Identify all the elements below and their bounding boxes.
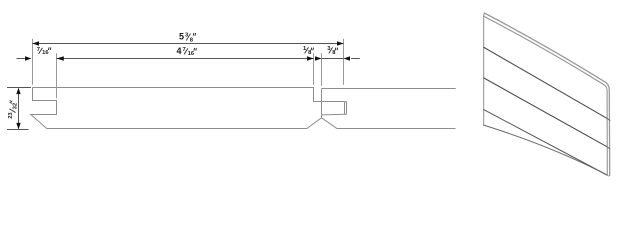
svg-text:4: 4 bbox=[177, 46, 182, 56]
svg-text:5: 5 bbox=[179, 31, 184, 41]
svg-text:16: 16 bbox=[188, 51, 195, 57]
svg-text:23: 23 bbox=[8, 112, 14, 119]
svg-text:16: 16 bbox=[42, 50, 49, 56]
svg-text:32: 32 bbox=[13, 103, 19, 109]
